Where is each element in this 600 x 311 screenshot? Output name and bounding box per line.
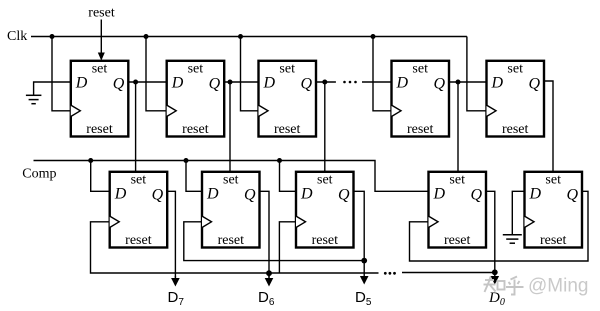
flip-flop U8: [296, 172, 354, 248]
wire U10 D to ground: [512, 191, 524, 235]
svg-text:reset: reset: [407, 122, 434, 137]
svg-text:Q: Q: [338, 186, 350, 203]
wire D6 arrow: [265, 276, 274, 287]
svg-text:Q: Q: [433, 75, 445, 92]
wire U3 Q to U8 set: [324, 82, 326, 172]
svg-text:set: set: [317, 172, 333, 187]
svg-text:D: D: [75, 75, 88, 92]
wire U1 Q to U2 D: [128, 81, 166, 83]
flip-flop U6: [110, 172, 168, 248]
wire U4 Q to U5 D: [449, 81, 487, 83]
wire U7 Q out: [260, 191, 270, 277]
svg-text:@Ming: @Ming: [528, 276, 588, 297]
svg-text:reset: reset: [182, 122, 209, 137]
svg-text:Comp: Comp: [22, 166, 56, 181]
wire U5 Q to U10 set: [544, 81, 553, 172]
node U2 Q junction: [228, 80, 233, 85]
svg-text:Q: Q: [209, 75, 221, 92]
svg-text:D: D: [433, 186, 446, 203]
svg-text:D: D: [529, 186, 542, 203]
wire U6 Q out: [167, 191, 175, 277]
svg-text:reset: reset: [125, 233, 152, 248]
node reset label: [88, 6, 115, 21]
svg-text:reset: reset: [312, 233, 339, 248]
svg-text:D: D: [114, 186, 127, 203]
node D0 junction: [492, 269, 498, 275]
svg-text:set: set: [449, 172, 465, 187]
svg-text:D: D: [206, 186, 219, 203]
node Clk junction 3: [238, 34, 243, 39]
svg-text:Q: Q: [300, 75, 312, 92]
wire Clk to U4 clock: [373, 37, 392, 111]
node Comp label: [22, 166, 56, 181]
flip-flop U7: [202, 172, 260, 248]
node Clk junction 1: [50, 34, 55, 39]
svg-text:Q: Q: [113, 75, 125, 92]
svg-text:reset: reset: [444, 233, 471, 248]
node D5 junction: [361, 258, 367, 264]
wire D0 arrow: [491, 273, 500, 285]
node ellipsis bottom row: [384, 272, 396, 275]
svg-text:Q: Q: [566, 186, 578, 203]
node Comp junction 2: [184, 158, 189, 163]
node D0 label: [488, 290, 505, 308]
node Clk junction 2: [144, 34, 149, 39]
flip-flop U10: [525, 172, 583, 248]
wire bus L2: [402, 272, 495, 274]
wire U3 Q to ellipsis: [316, 81, 336, 83]
wire Comp to U7 D: [186, 161, 202, 192]
wire D5 arrow: [360, 276, 369, 285]
node U4 Q junction: [456, 80, 461, 85]
ground G2: [503, 235, 522, 243]
svg-text:set: set: [507, 61, 523, 76]
wire U6 clock to bus L1: [91, 222, 379, 273]
ground G1: [26, 95, 42, 103]
svg-text:D: D: [171, 75, 184, 92]
node D6 label: [258, 289, 275, 308]
svg-text:Q: Q: [152, 186, 164, 203]
wire Comp to U8 D: [280, 161, 297, 192]
flip-flop U1: [71, 61, 129, 137]
svg-text:set: set: [279, 61, 295, 76]
flip-flop U5: [487, 61, 545, 137]
wire Clk to U2 clock: [146, 37, 167, 111]
svg-text:D: D: [396, 75, 409, 92]
svg-text:reset: reset: [218, 233, 245, 248]
svg-text:reset: reset: [86, 122, 113, 137]
node D5 label: [355, 289, 372, 308]
wire ellipsis to U4 D: [362, 81, 392, 83]
node Clk label: [7, 29, 27, 44]
flip-flop U2: [167, 61, 225, 137]
wire U1 D to ground: [34, 82, 71, 95]
svg-text:reset: reset: [274, 122, 301, 137]
svg-text:reset: reset: [540, 233, 567, 248]
wire Comp to U6 D: [91, 161, 110, 192]
node ellipsis top row: [343, 81, 357, 84]
node U1 Q junction: [133, 80, 138, 85]
svg-text:set: set: [545, 172, 561, 187]
wire reset to U1 set: [98, 20, 105, 61]
svg-text:set: set: [188, 61, 204, 76]
svg-text:set: set: [92, 61, 108, 76]
node U3 Q junction: [322, 80, 327, 85]
flip-flop U3: [259, 61, 317, 137]
svg-text:set: set: [223, 172, 239, 187]
wire U8 Q out: [354, 191, 365, 277]
svg-text:D: D: [491, 75, 504, 92]
svg-text:D: D: [300, 186, 313, 203]
wire Clk bus: [31, 36, 467, 38]
node Comp junction 1: [88, 158, 93, 163]
wire U4 Q to U9 set: [457, 82, 459, 172]
wire U7 clock to D5 node: [184, 222, 364, 261]
wire U9 Q out: [486, 191, 495, 272]
wire Clk to U1 clock: [52, 37, 71, 111]
node Clk junction 4: [371, 34, 376, 39]
wire U8 clock to bus L1: [279, 222, 296, 273]
svg-text:Clk: Clk: [7, 29, 27, 44]
flip-flop U4: [392, 61, 450, 137]
node D6 junction: [266, 270, 272, 276]
wire Clk to U3 clock: [241, 37, 259, 111]
svg-text:set: set: [131, 172, 147, 187]
wire U2 Q to U3 D: [224, 81, 258, 83]
node Comp junction 3: [277, 158, 282, 163]
svg-text:reset: reset: [502, 122, 529, 137]
svg-text:set: set: [412, 61, 428, 76]
flip-flop U9: [429, 172, 487, 248]
wire Clk to U5 clock: [467, 37, 487, 111]
wire U1 Q to U6 set: [135, 82, 137, 172]
svg-text:Q: Q: [528, 75, 540, 92]
watermark: [484, 276, 589, 297]
svg-text:reset: reset: [88, 6, 115, 21]
svg-text:Q: Q: [470, 186, 482, 203]
node D7 label: [168, 289, 185, 308]
wire U2 Q to U7 set: [229, 82, 231, 172]
svg-text:Q: Q: [244, 186, 256, 203]
svg-text:D: D: [263, 75, 276, 92]
wire Comp bus: [34, 161, 429, 192]
wire D7 arrow: [171, 276, 180, 287]
wire U9 clock to U10 Q: [410, 191, 589, 261]
